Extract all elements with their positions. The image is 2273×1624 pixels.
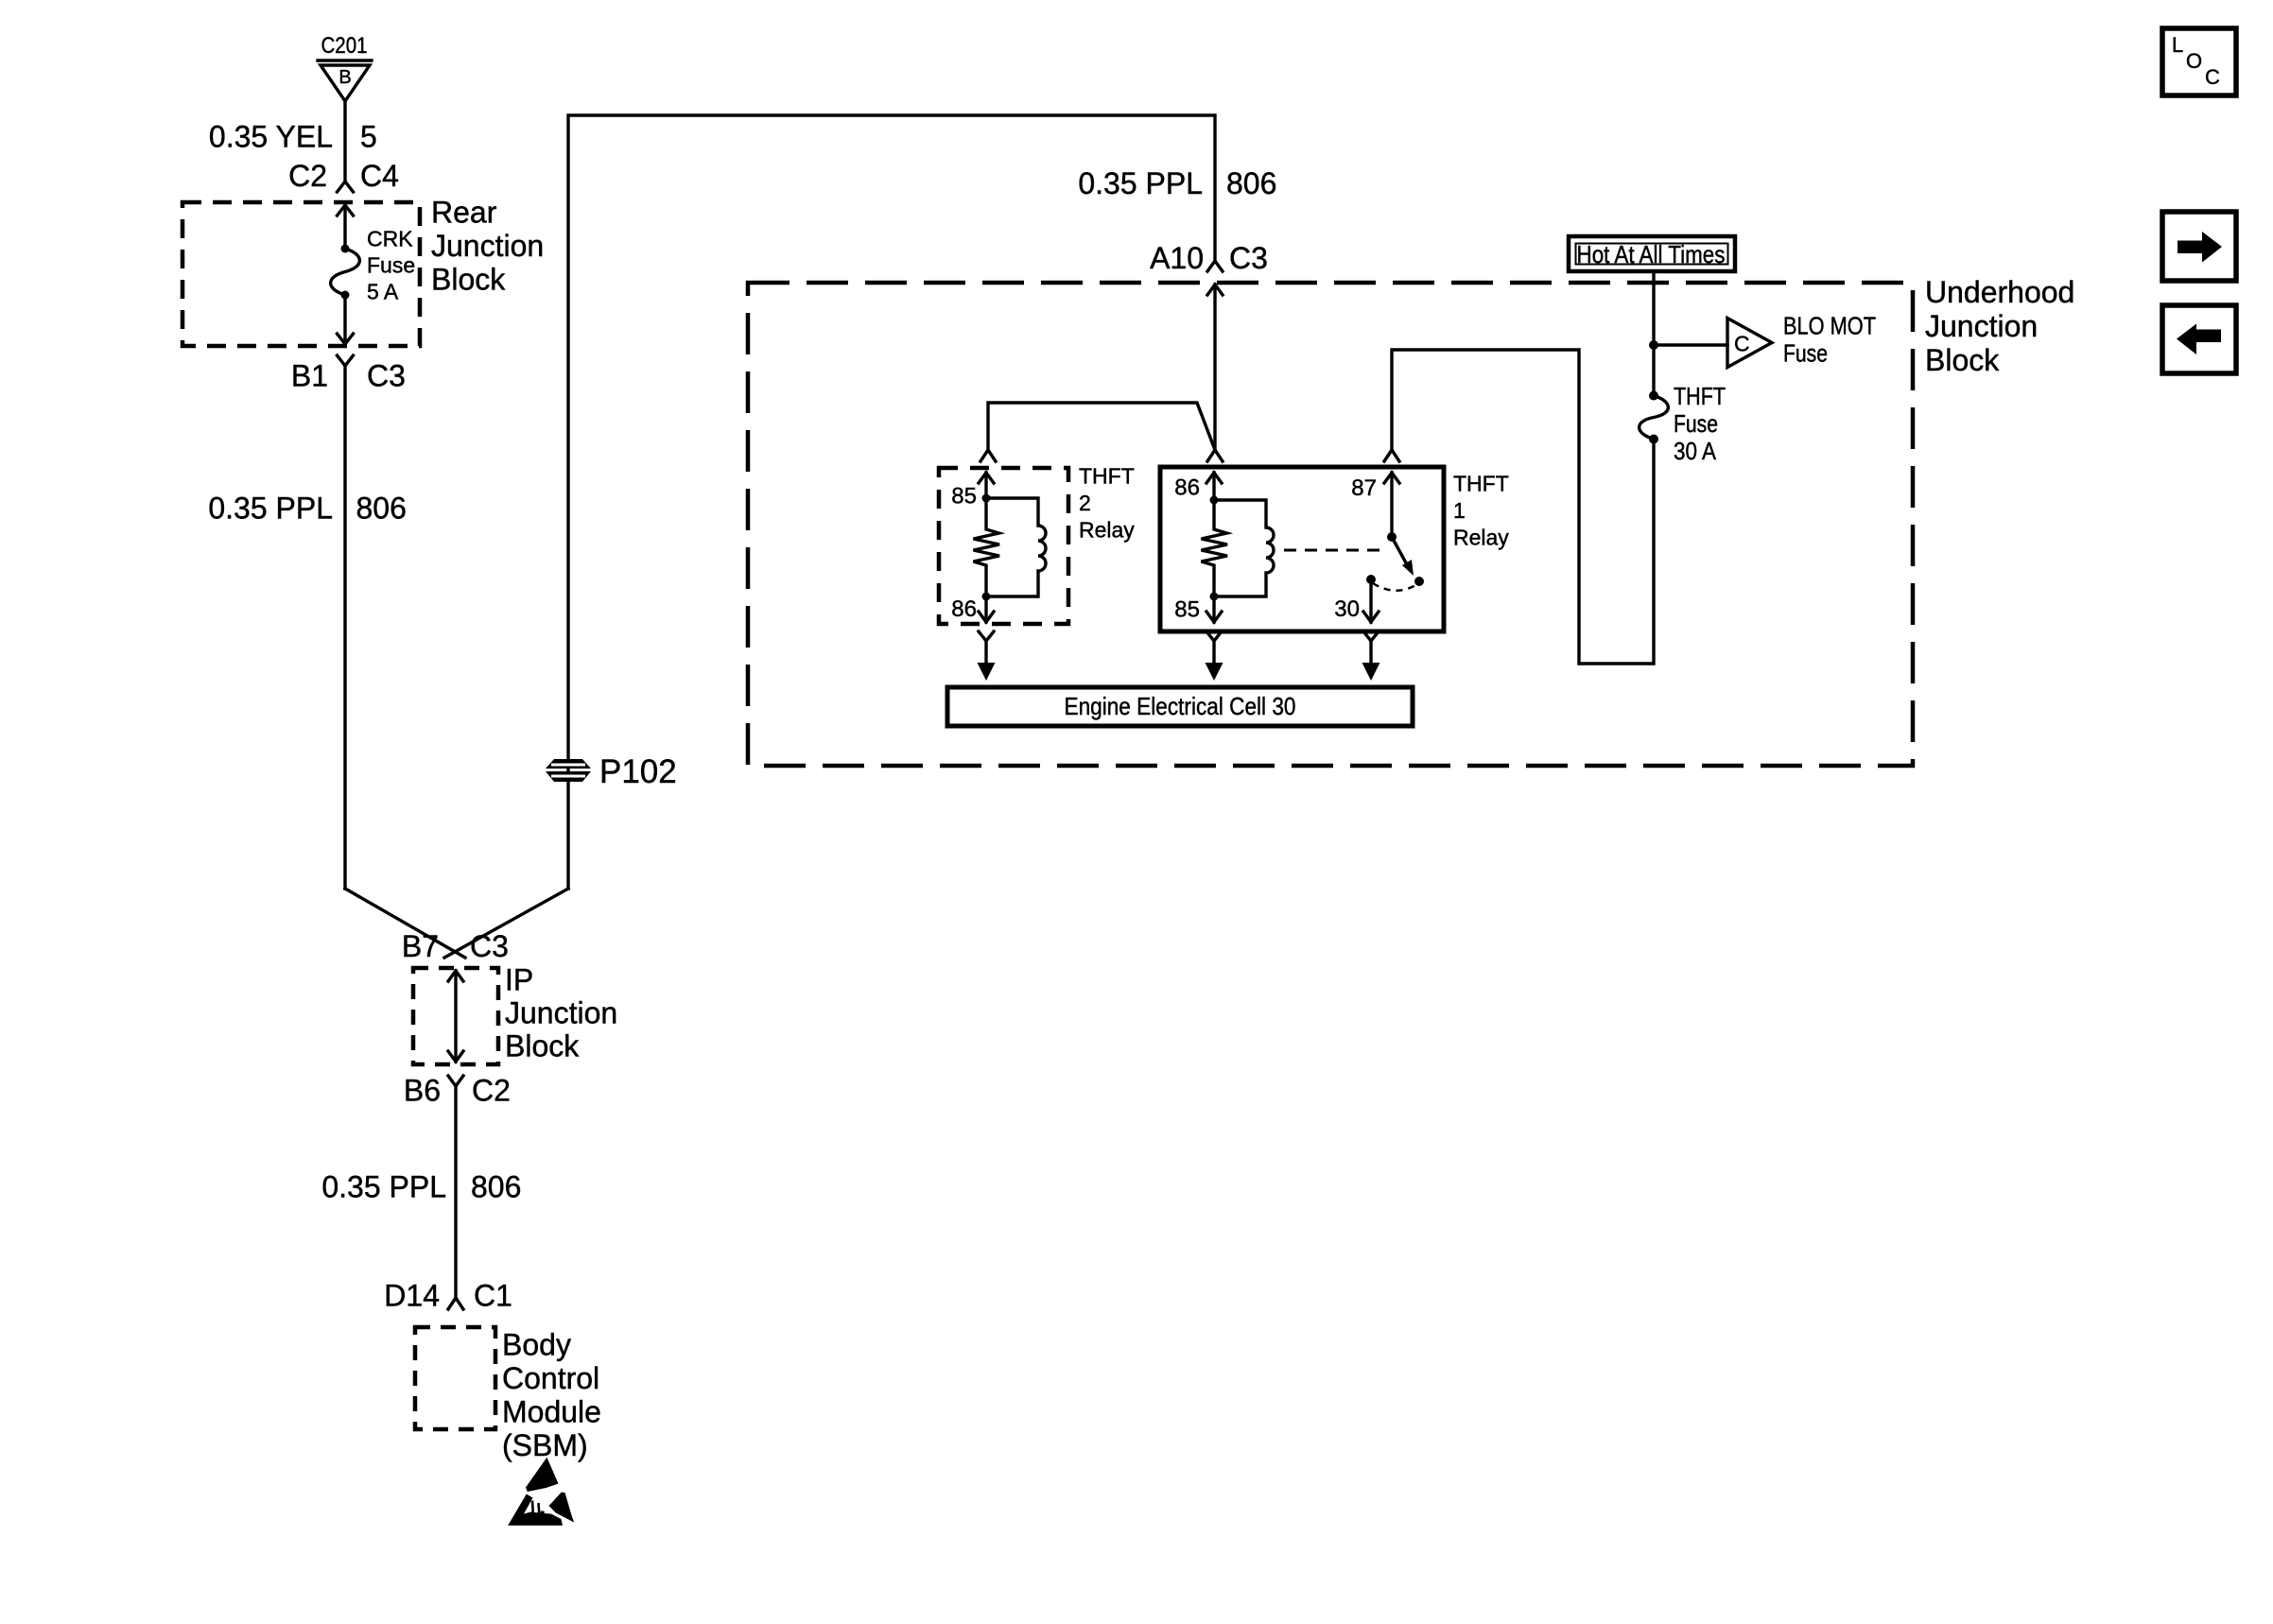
svg-text:B6: B6 bbox=[404, 1074, 441, 1108]
label 30 of THFT 1 relay bbox=[1334, 596, 1360, 622]
svg-text:C3: C3 bbox=[1229, 241, 1268, 275]
svg-text:2: 2 bbox=[1079, 491, 1091, 515]
svg-text:Rear: Rear bbox=[431, 196, 497, 230]
wire branch to BLO MOT fuse bbox=[1654, 343, 1727, 346]
svg-text:Hot At All Times: Hot At All Times bbox=[1577, 240, 1726, 268]
svg-text:P102: P102 bbox=[599, 753, 677, 790]
svg-text:Engine Electrical Cell 30: Engine Electrical Cell 30 bbox=[1065, 692, 1296, 720]
CRK fuse 5A symbol bbox=[331, 245, 360, 300]
svg-text:806: 806 bbox=[471, 1170, 521, 1204]
svg-text:0.35 YEL: 0.35 YEL bbox=[209, 120, 333, 154]
label THFT 1 Relay bbox=[1453, 472, 1509, 550]
svg-text:30: 30 bbox=[1334, 596, 1360, 622]
svg-text:D14: D14 bbox=[384, 1279, 440, 1313]
svg-text:5 A: 5 A bbox=[367, 280, 399, 304]
svg-text:Junction: Junction bbox=[431, 229, 544, 263]
Hot At All Times box bbox=[1569, 236, 1735, 271]
svg-text:Junction: Junction bbox=[1925, 309, 2038, 343]
svg-text:0.35 PPL: 0.35 PPL bbox=[1078, 166, 1203, 200]
male terminal arrow into Rear Junction Block bbox=[338, 205, 354, 248]
svg-text:(SBM): (SBM) bbox=[502, 1428, 588, 1462]
svg-text:806: 806 bbox=[356, 492, 407, 526]
label 0.35 YEL wire bbox=[209, 120, 377, 154]
svg-text:Fuse: Fuse bbox=[1783, 339, 1828, 368]
label C201 bbox=[321, 33, 368, 59]
label IP Junction Block bbox=[505, 963, 617, 1063]
connector P102 pass-through grommet bbox=[546, 759, 591, 782]
svg-text:Block: Block bbox=[505, 1029, 580, 1063]
female terminal B6/C2 below IP Junction Block bbox=[448, 1076, 463, 1086]
svg-text:THFT: THFT bbox=[1079, 464, 1135, 489]
svg-text:Module: Module bbox=[502, 1395, 601, 1429]
THFT fuse 30A symbol bbox=[1640, 391, 1669, 444]
svg-text:0.35 PPL: 0.35 PPL bbox=[208, 492, 333, 526]
ESD sensitive device symbol bbox=[508, 1458, 574, 1526]
back arrow navigation box bbox=[2162, 305, 2236, 373]
male terminal arrow into Underhood Junction Block and wire to THFT 1 relay bbox=[1207, 285, 1223, 450]
svg-text:85: 85 bbox=[951, 484, 977, 510]
label C2 C4 connector pins bbox=[288, 159, 399, 193]
wire diagonal left into B7 X crossing bbox=[345, 889, 465, 958]
svg-text:87: 87 bbox=[1351, 475, 1377, 501]
svg-text:5: 5 bbox=[360, 120, 377, 154]
svg-text:A10: A10 bbox=[1150, 241, 1204, 275]
label Underhood Junction Block bbox=[1925, 275, 2074, 377]
THFT 1 relay terminal 85 arrow bbox=[1206, 593, 1222, 623]
svg-text:Relay: Relay bbox=[1079, 518, 1135, 543]
female terminal D14/C1 bbox=[448, 1298, 463, 1309]
forward arrow navigation box bbox=[2162, 212, 2236, 281]
THFT 1 relay switch travel dashed arc bbox=[1373, 583, 1417, 591]
wire branch to THFT 2 relay bbox=[988, 403, 1215, 450]
wire diagonal right into C3 X crossing bbox=[444, 889, 568, 958]
svg-text:C3: C3 bbox=[367, 359, 406, 393]
svg-text:B: B bbox=[338, 67, 351, 88]
label CRK Fuse 5 A bbox=[367, 227, 415, 304]
svg-text:C: C bbox=[2205, 65, 2220, 89]
label A10 C3 connector pins bbox=[1150, 241, 1268, 275]
female terminal and arrow to Engine Electrical Cell from THFT 1 relay 30 bbox=[1362, 631, 1380, 681]
svg-text:C3: C3 bbox=[470, 929, 509, 963]
label BLO MOT Fuse bbox=[1783, 312, 1876, 368]
svg-text:Underhood: Underhood bbox=[1925, 275, 2074, 309]
THFT 1 relay coil-to-switch dashed link bbox=[1284, 549, 1386, 552]
Engine Electrical Cell 30 box bbox=[947, 687, 1413, 726]
svg-text:Fuse: Fuse bbox=[1674, 409, 1718, 438]
svg-text:BLO MOT: BLO MOT bbox=[1783, 312, 1876, 340]
female terminal and arrow to Engine Electrical Cell from THFT 2 relay bbox=[978, 631, 996, 681]
svg-text:C: C bbox=[1734, 332, 1750, 356]
svg-text:C201: C201 bbox=[321, 33, 368, 59]
female terminal C4 (connector C2/C4) bbox=[338, 181, 354, 192]
female terminal and arrow to Engine Electrical Cell from THFT 1 relay 85 bbox=[1206, 631, 1223, 681]
label D14 C1 connector pins bbox=[384, 1279, 512, 1313]
svg-text:Junction: Junction bbox=[505, 996, 617, 1030]
svg-text:THFT: THFT bbox=[1674, 382, 1726, 410]
label Rear Junction Block bbox=[431, 196, 544, 297]
svg-text:0.35 PPL: 0.35 PPL bbox=[321, 1170, 446, 1204]
svg-text:THFT: THFT bbox=[1453, 472, 1509, 496]
label 0.35 PPL 806 top wire bbox=[1078, 166, 1276, 200]
svg-text:Body: Body bbox=[502, 1328, 571, 1362]
svg-text:86: 86 bbox=[1174, 475, 1200, 501]
svg-text:O: O bbox=[2186, 49, 2202, 73]
THFT 2 Relay dashed box bbox=[939, 468, 1068, 624]
THFT 1 relay coil bbox=[1214, 500, 1274, 596]
double-headed arrow through IP Junction Block bbox=[448, 971, 463, 1062]
svg-text:1: 1 bbox=[1453, 498, 1466, 523]
svg-text:IP: IP bbox=[505, 963, 533, 997]
THFT 2 relay terminal 86 arrow bbox=[979, 593, 994, 623]
svg-text:806: 806 bbox=[1226, 166, 1276, 200]
label B inside C201 triangle bbox=[338, 67, 351, 88]
Body Control Module dashed box bbox=[415, 1327, 495, 1429]
label 85 of THFT 2 relay bbox=[951, 484, 977, 510]
Underhood Junction Block dashed box bbox=[748, 283, 1913, 766]
svg-text:L: L bbox=[2172, 33, 2183, 57]
label Hot At All Times bbox=[1577, 240, 1726, 268]
label 85 of THFT 1 relay bbox=[1174, 597, 1200, 623]
svg-text:Block: Block bbox=[431, 263, 506, 297]
THFT 1 relay terminal 30 arrow bbox=[1363, 575, 1379, 622]
label B7 C3 connector pins bbox=[402, 929, 509, 963]
svg-text:86: 86 bbox=[951, 596, 977, 622]
female terminal A10/C3 bbox=[1207, 261, 1223, 271]
THFT 2 relay terminal 85 arrow bbox=[979, 473, 994, 503]
label L O C in reference box bbox=[2172, 33, 2220, 89]
label 86 of THFT 1 relay bbox=[1174, 475, 1200, 501]
THFT 1 relay terminal 86 arrow bbox=[1206, 473, 1222, 505]
svg-text:C4: C4 bbox=[360, 159, 399, 193]
label Engine Electrical Cell 30 bbox=[1065, 692, 1296, 720]
IP Junction Block dashed box bbox=[413, 968, 498, 1064]
wire 0.35 PPL 806 from B1/C3 down bbox=[343, 366, 346, 889]
connector C201 triangle symbol bbox=[318, 60, 372, 101]
label THFT Fuse 30 A bbox=[1674, 382, 1726, 465]
svg-text:Relay: Relay bbox=[1453, 526, 1509, 550]
svg-text:Fuse: Fuse bbox=[367, 253, 415, 278]
wire from THFT fuse around to 87 of THFT 1 relay bbox=[1392, 350, 1654, 664]
svg-text:C2: C2 bbox=[288, 159, 327, 193]
label Body Control Module (SBM) bbox=[502, 1328, 601, 1463]
svg-text:C2: C2 bbox=[472, 1074, 511, 1108]
wire from fuse to bottom of Rear Junction Block bbox=[338, 295, 354, 344]
label 0.35 PPL 806 left wire bbox=[208, 492, 407, 526]
label B1 C3 connector pins bbox=[291, 359, 406, 393]
Rear Junction Block dashed box bbox=[182, 202, 420, 346]
female terminal at 85 of THFT 2 relay bbox=[980, 450, 996, 461]
wire from Hot At All Times down to THFT fuse bbox=[1649, 271, 1658, 395]
svg-text:30 A: 30 A bbox=[1674, 437, 1717, 465]
label 86 of THFT 2 relay bbox=[951, 596, 977, 622]
svg-text:85: 85 bbox=[1174, 597, 1200, 623]
label 87 of THFT 1 relay bbox=[1351, 475, 1377, 501]
label P102 bbox=[599, 753, 677, 790]
THFT 1 relay switch arm bbox=[1392, 537, 1424, 586]
label 0.35 PPL 806 lower wire bbox=[321, 1170, 521, 1204]
label B6 C2 connector pins bbox=[404, 1074, 511, 1108]
label THFT 2 Relay bbox=[1079, 464, 1135, 543]
svg-text:C1: C1 bbox=[474, 1279, 512, 1313]
THFT 2 relay resistor bbox=[974, 498, 1000, 596]
svg-text:CRK: CRK bbox=[367, 227, 413, 251]
wire 0.35 PPL 806 from B6/C2 down to D14/C1 bbox=[454, 1086, 457, 1298]
THFT 1 relay terminal 87 arrow bbox=[1384, 473, 1399, 542]
THFT 1 Relay box bbox=[1160, 467, 1444, 631]
LOC reference box bbox=[2162, 28, 2236, 95]
svg-text:B7: B7 bbox=[402, 929, 439, 963]
wire top horizontal run and right vertical with P102 bbox=[568, 115, 1215, 889]
wire from C201 down to C2/C4 bbox=[343, 101, 346, 181]
female terminal at 86 of THFT 1 relay bbox=[1207, 450, 1223, 461]
THFT 1 relay resistor bbox=[1202, 500, 1228, 596]
svg-text:Control: Control bbox=[502, 1361, 599, 1395]
female terminal B1/C3 below Rear Junction Block bbox=[338, 355, 354, 366]
svg-text:Block: Block bbox=[1925, 343, 2000, 377]
svg-text:B1: B1 bbox=[291, 359, 328, 393]
female terminal at 87 of THFT 1 relay bbox=[1384, 450, 1399, 461]
BLO MOT fuse triangle symbol bbox=[1727, 319, 1772, 368]
label C inside BLO MOT fuse triangle bbox=[1734, 332, 1750, 356]
THFT 2 relay coil bbox=[986, 498, 1046, 596]
